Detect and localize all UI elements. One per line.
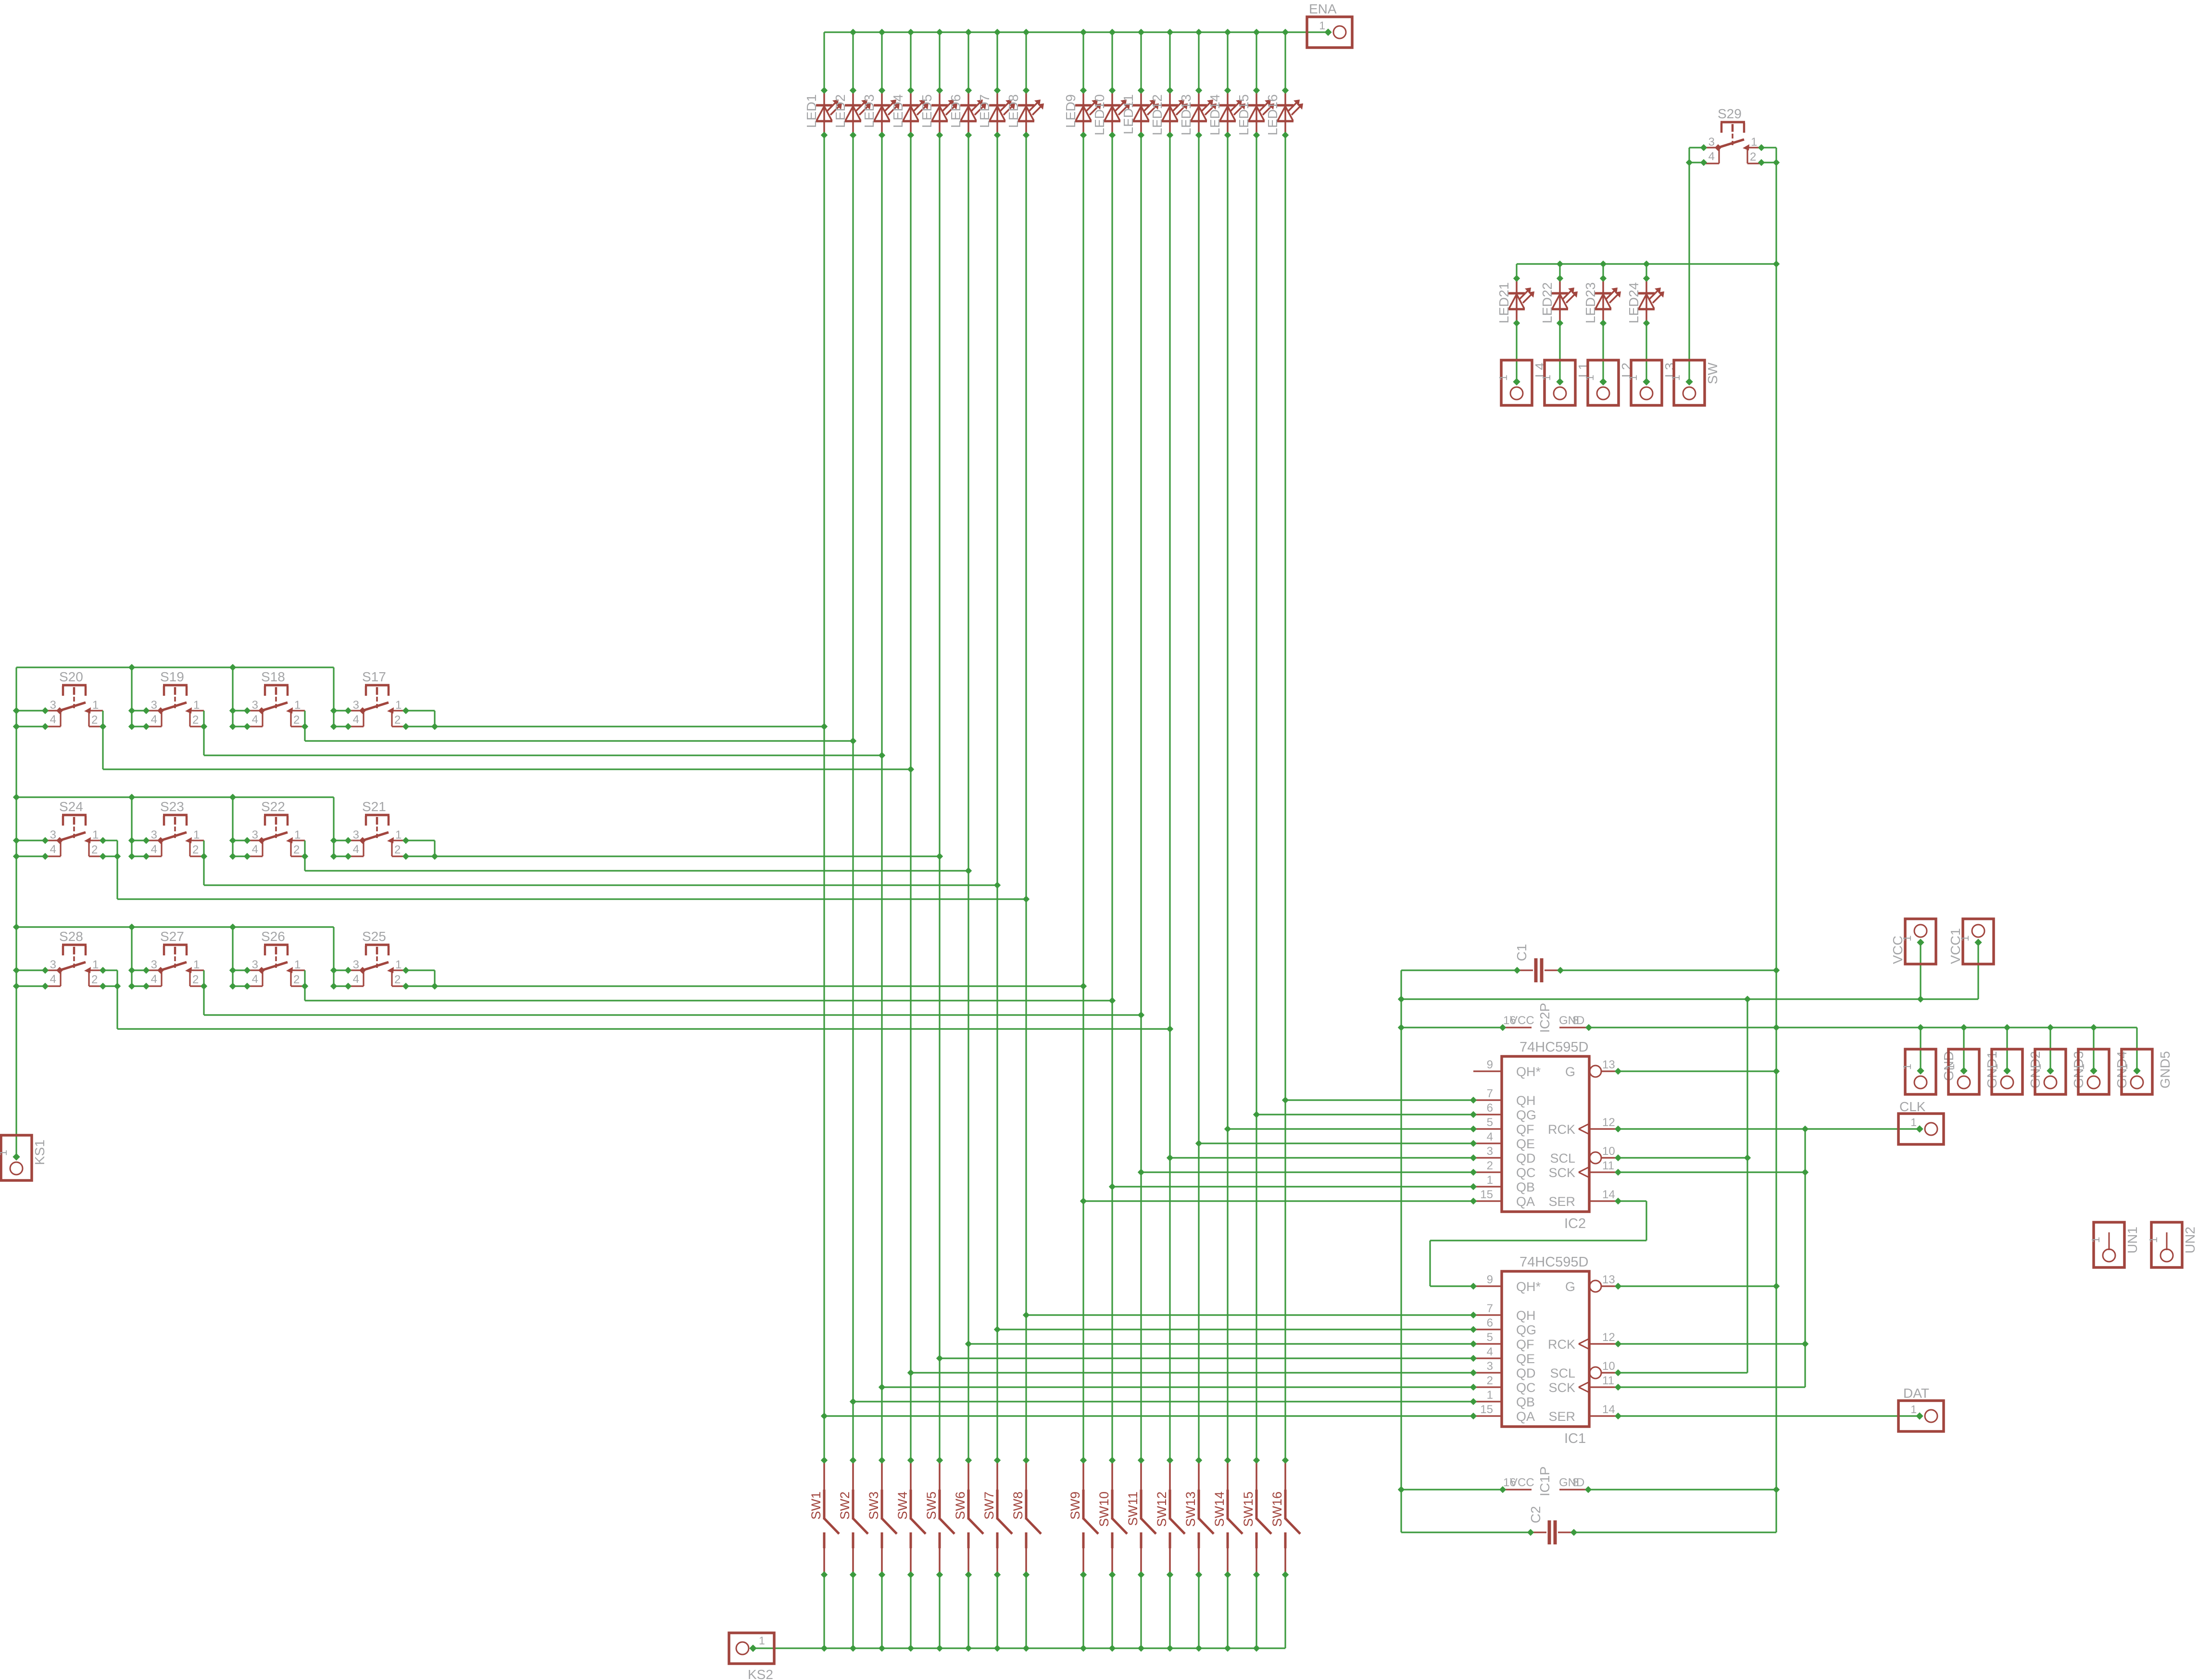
svg-text:RCK: RCK [1548,1122,1575,1137]
svg-text:2: 2 [192,714,199,727]
svg-text:74HC595D: 74HC595D [1520,1254,1588,1270]
svg-text:2: 2 [91,714,98,727]
svg-text:15: 15 [1480,1188,1493,1201]
svg-text:LED10: LED10 [1092,94,1107,136]
svg-text:7: 7 [1487,1087,1493,1100]
svg-text:1: 1 [1910,1116,1917,1128]
svg-text:LED12: LED12 [1150,94,1165,136]
svg-text:QG: QG [1516,1108,1536,1122]
svg-text:IC1P: IC1P [1537,1467,1552,1496]
svg-text:1: 1 [0,1150,9,1156]
svg-text:13: 13 [1602,1058,1615,1071]
svg-text:1: 1 [1910,1403,1917,1416]
svg-text:QE: QE [1516,1352,1535,1366]
svg-text:4: 4 [1487,1345,1493,1358]
svg-text:1: 1 [92,828,99,841]
svg-text:1: 1 [2147,1237,2160,1243]
svg-text:LED3: LED3 [862,94,877,128]
svg-text:3: 3 [50,699,56,712]
svg-text:2: 2 [394,973,401,986]
svg-text:KS2: KS2 [748,1667,773,1680]
svg-text:S26: S26 [261,929,285,944]
svg-text:SW14: SW14 [1212,1492,1227,1527]
svg-text:VCC: VCC [1890,936,1905,964]
svg-text:4: 4 [50,843,56,856]
svg-text:VCC: VCC [1510,1476,1534,1489]
svg-text:LED7: LED7 [977,94,992,128]
svg-text:QH*: QH* [1516,1279,1541,1294]
svg-text:LED16: LED16 [1265,94,1280,136]
svg-text:SCK: SCK [1548,1380,1575,1395]
svg-text:4: 4 [353,973,359,986]
svg-text:1: 1 [193,958,200,971]
svg-text:12: 12 [1602,1116,1615,1129]
svg-text:5: 5 [1487,1331,1493,1344]
svg-text:6: 6 [1487,1316,1493,1329]
svg-text:1: 1 [1497,375,1509,381]
svg-text:3: 3 [1708,136,1715,149]
svg-text:1: 1 [1944,1064,1957,1070]
svg-text:SCL: SCL [1550,1366,1575,1380]
svg-text:SW10: SW10 [1097,1492,1111,1527]
svg-text:LED8: LED8 [1006,94,1021,128]
svg-text:4: 4 [353,843,359,856]
svg-text:S21: S21 [362,799,386,814]
svg-text:1: 1 [1901,1064,1913,1070]
svg-text:S17: S17 [362,669,386,684]
svg-text:G: G [1565,1279,1575,1294]
svg-text:2: 2 [394,843,401,856]
svg-text:S25: S25 [362,929,386,944]
svg-text:8: 8 [1572,1476,1579,1489]
svg-text:SW8: SW8 [1011,1492,1025,1520]
svg-text:3: 3 [252,958,258,971]
svg-text:3: 3 [252,828,258,841]
svg-text:IC2: IC2 [1564,1216,1586,1231]
svg-text:3: 3 [50,828,56,841]
svg-text:1: 1 [294,828,301,841]
svg-text:SW12: SW12 [1155,1492,1169,1527]
svg-text:S24: S24 [59,799,83,814]
svg-text:QG: QG [1516,1323,1536,1337]
svg-text:3: 3 [353,828,359,841]
svg-text:SW5: SW5 [924,1492,939,1520]
svg-text:11: 11 [1602,1374,1614,1387]
svg-text:4: 4 [1487,1130,1493,1143]
svg-text:6: 6 [1487,1102,1493,1115]
svg-text:1: 1 [1987,1064,2000,1070]
svg-text:1: 1 [1627,375,1639,381]
svg-text:S20: S20 [59,669,83,684]
svg-text:SW16: SW16 [1270,1492,1284,1527]
svg-text:2: 2 [293,843,300,856]
svg-text:1: 1 [759,1634,765,1647]
svg-text:9: 9 [1487,1273,1493,1286]
svg-text:KS1: KS1 [32,1140,47,1165]
svg-text:1: 1 [2031,1064,2043,1070]
svg-text:1: 1 [2074,1064,2086,1070]
svg-text:1: 1 [1540,375,1553,381]
svg-text:1: 1 [294,958,301,971]
svg-text:1: 1 [1487,1174,1493,1187]
svg-text:4: 4 [151,843,157,856]
svg-text:GND5: GND5 [2158,1051,2173,1089]
svg-text:1: 1 [395,828,402,841]
svg-text:10: 10 [1602,1145,1615,1158]
svg-text:SW15: SW15 [1241,1492,1256,1527]
svg-text:IC2P: IC2P [1537,1003,1552,1033]
svg-text:QB: QB [1516,1180,1535,1194]
svg-text:4: 4 [252,843,258,856]
svg-text:VCC1: VCC1 [1948,928,1963,964]
svg-text:2: 2 [293,973,300,986]
svg-text:4: 4 [50,713,56,726]
svg-text:S19: S19 [160,669,184,684]
svg-text:SCK: SCK [1548,1166,1575,1180]
svg-text:2: 2 [1750,150,1756,163]
svg-text:3: 3 [151,699,157,712]
svg-text:1: 1 [1670,375,1682,381]
svg-text:3: 3 [1487,1360,1493,1373]
svg-text:4: 4 [151,973,157,986]
svg-text:SER: SER [1548,1194,1575,1209]
svg-text:SW7: SW7 [982,1492,996,1520]
svg-text:LED2: LED2 [833,94,848,128]
svg-text:SW: SW [1705,362,1720,384]
svg-text:3: 3 [252,699,258,712]
svg-text:2: 2 [293,714,300,727]
svg-text:QC: QC [1516,1380,1536,1395]
svg-text:S23: S23 [160,799,184,814]
svg-text:1: 1 [193,699,200,712]
svg-text:4: 4 [252,713,258,726]
svg-text:4: 4 [50,973,56,986]
svg-text:QB: QB [1516,1395,1535,1409]
svg-text:IC1: IC1 [1564,1431,1586,1446]
svg-text:QA: QA [1516,1194,1535,1209]
svg-text:GND: GND [1559,1014,1584,1027]
svg-text:SCL: SCL [1550,1151,1575,1166]
svg-text:LED9: LED9 [1063,94,1078,128]
svg-text:QA: QA [1516,1409,1535,1424]
svg-text:SW11: SW11 [1126,1492,1140,1526]
svg-text:1: 1 [2089,1237,2102,1243]
svg-text:S27: S27 [160,929,184,944]
svg-text:3: 3 [1487,1145,1493,1158]
svg-text:S22: S22 [261,799,285,814]
svg-text:3: 3 [151,958,157,971]
svg-text:QD: QD [1516,1366,1536,1380]
svg-text:LED24: LED24 [1626,282,1641,324]
svg-text:LED5: LED5 [919,94,934,128]
svg-text:RCK: RCK [1548,1337,1575,1352]
svg-text:SW9: SW9 [1068,1492,1082,1520]
svg-text:3: 3 [353,958,359,971]
svg-text:4: 4 [252,973,258,986]
svg-text:SW4: SW4 [895,1492,910,1520]
svg-text:1: 1 [1751,136,1757,149]
svg-text:QH: QH [1516,1308,1536,1323]
svg-text:1: 1 [294,699,301,712]
svg-text:1: 1 [2117,1064,2130,1070]
svg-text:LED21: LED21 [1496,282,1511,324]
svg-text:QE: QE [1516,1137,1535,1151]
svg-text:S29: S29 [1718,106,1742,121]
svg-text:2: 2 [394,714,401,727]
svg-text:15: 15 [1480,1403,1493,1416]
svg-text:1: 1 [395,699,402,712]
svg-text:LED13: LED13 [1179,94,1193,136]
svg-text:1: 1 [395,958,402,971]
svg-text:2: 2 [91,843,98,856]
svg-text:S18: S18 [261,669,285,684]
svg-text:QF: QF [1516,1337,1534,1352]
svg-text:4: 4 [1708,150,1715,163]
svg-text:UN2: UN2 [2183,1227,2198,1254]
svg-text:QF: QF [1516,1122,1534,1137]
svg-text:LED6: LED6 [948,94,963,128]
svg-text:14: 14 [1602,1403,1615,1416]
svg-text:SW2: SW2 [838,1492,852,1520]
svg-text:2: 2 [1487,1159,1493,1172]
svg-text:8: 8 [1572,1014,1579,1027]
svg-text:3: 3 [353,699,359,712]
svg-text:4: 4 [151,713,157,726]
svg-text:SW1: SW1 [809,1492,823,1520]
svg-text:GND: GND [1559,1476,1584,1489]
svg-text:VCC: VCC [1510,1014,1534,1027]
svg-text:ENA: ENA [1309,1,1337,16]
svg-text:LED11: LED11 [1121,94,1136,135]
svg-text:12: 12 [1602,1331,1615,1344]
svg-text:LED1: LED1 [804,94,819,128]
svg-text:2: 2 [91,973,98,986]
svg-text:G: G [1565,1065,1575,1079]
svg-text:1: 1 [92,958,99,971]
svg-text:1: 1 [92,699,99,712]
svg-text:QH*: QH* [1516,1065,1541,1079]
svg-text:2: 2 [192,973,199,986]
svg-text:SER: SER [1548,1409,1575,1424]
svg-text:3: 3 [50,958,56,971]
svg-text:QH: QH [1516,1093,1536,1108]
svg-text:UN1: UN1 [2125,1227,2140,1254]
svg-text:LED23: LED23 [1583,282,1598,324]
svg-text:13: 13 [1602,1273,1615,1286]
svg-text:74HC595D: 74HC595D [1520,1040,1588,1055]
svg-text:SW6: SW6 [953,1492,967,1520]
svg-text:LED15: LED15 [1236,94,1251,136]
svg-text:11: 11 [1602,1159,1614,1172]
svg-text:SW13: SW13 [1183,1492,1198,1527]
svg-text:1: 1 [193,828,200,841]
svg-text:1: 1 [1487,1389,1493,1402]
svg-text:LED22: LED22 [1540,282,1555,324]
svg-text:10: 10 [1602,1360,1615,1373]
svg-text:9: 9 [1487,1058,1493,1071]
svg-text:S28: S28 [59,929,83,944]
svg-text:14: 14 [1602,1188,1615,1201]
svg-text:C1: C1 [1514,944,1529,961]
svg-text:1: 1 [1583,375,1596,381]
svg-text:LED4: LED4 [891,94,905,128]
svg-text:7: 7 [1487,1302,1493,1315]
svg-text:4: 4 [353,713,359,726]
svg-text:C2: C2 [1528,1506,1543,1523]
svg-text:5: 5 [1487,1116,1493,1129]
svg-text:1: 1 [1319,19,1325,32]
svg-text:DAT: DAT [1903,1386,1929,1401]
svg-text:3: 3 [151,828,157,841]
svg-text:QD: QD [1516,1151,1536,1166]
svg-text:2: 2 [192,843,199,856]
svg-text:CLK: CLK [1899,1099,1926,1114]
svg-text:QC: QC [1516,1166,1536,1180]
svg-text:LED14: LED14 [1207,94,1222,136]
svg-text:2: 2 [1487,1374,1493,1387]
svg-text:SW3: SW3 [867,1492,881,1520]
